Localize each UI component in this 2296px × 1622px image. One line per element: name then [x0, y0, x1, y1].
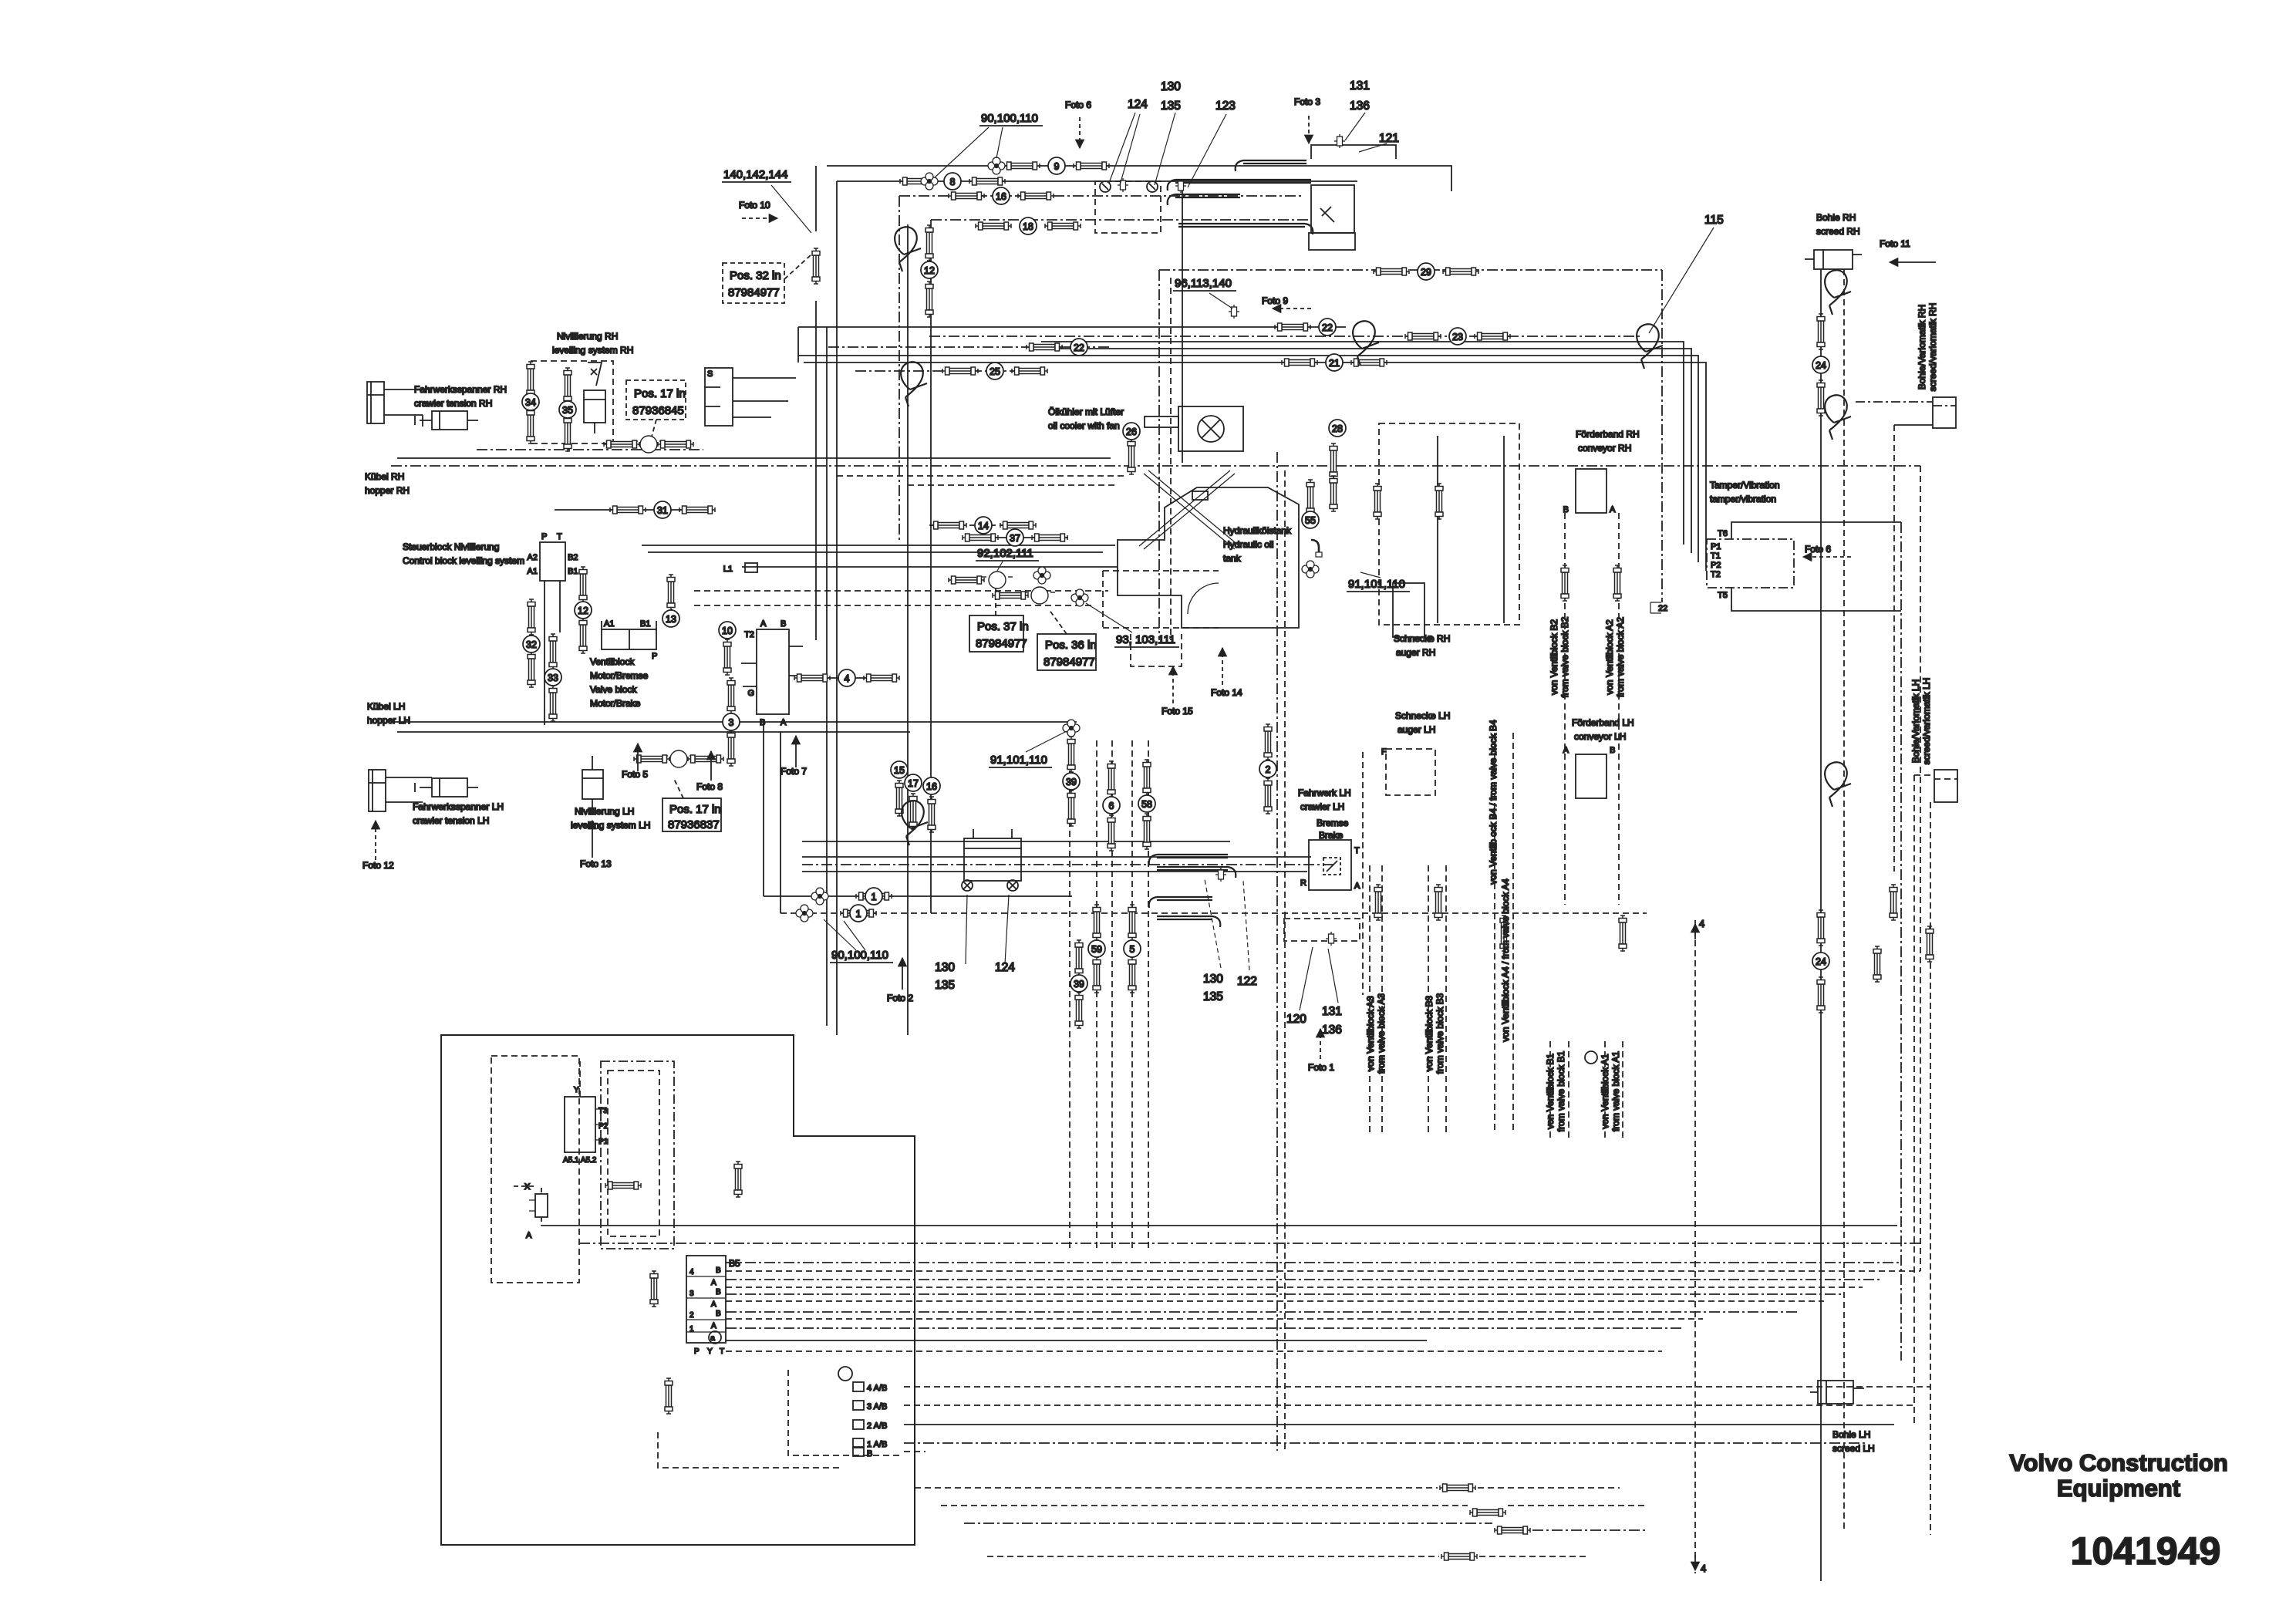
svg-text:Bremse: Bremse [1317, 818, 1349, 828]
svg-text:130: 130 [935, 961, 955, 974]
svg-text:hopper LH: hopper LH [367, 715, 410, 726]
svg-text:Pos. 37 in: Pos. 37 in [977, 620, 1029, 633]
svg-text:from valve block B3: from valve block B3 [1435, 993, 1445, 1074]
svg-text:87984977: 87984977 [1043, 656, 1095, 669]
svg-text:130: 130 [1161, 80, 1181, 93]
svg-text:12: 12 [578, 605, 588, 616]
svg-text:21: 21 [1329, 358, 1340, 369]
svg-text:Foto 13: Foto 13 [580, 858, 612, 869]
svg-text:Fahrwerk LH: Fahrwerk LH [1298, 787, 1351, 798]
svg-text:Foto 2: Foto 2 [887, 993, 913, 1003]
svg-text:P: P [694, 1347, 700, 1356]
svg-text:Volvo Construction: Volvo Construction [2009, 1449, 2228, 1476]
svg-text:3: 3 [689, 1290, 694, 1298]
svg-text:P: P [652, 652, 657, 661]
svg-text:Schnecke LH: Schnecke LH [1395, 710, 1450, 721]
svg-text:crawler LH: crawler LH [1300, 801, 1344, 812]
svg-text:Nivillierung LH: Nivillierung LH [575, 806, 634, 817]
svg-text:Bohle/Variomatik RH: Bohle/Variomatik RH [1917, 305, 1927, 389]
svg-text:A: A [781, 718, 787, 727]
svg-text:B2: B2 [568, 553, 578, 562]
svg-text:T: T [557, 532, 562, 541]
svg-text:17: 17 [908, 778, 919, 789]
svg-text:crawler tension RH: crawler tension RH [414, 398, 492, 409]
svg-text:von Ventilblock A3: von Ventilblock A3 [1365, 996, 1376, 1071]
svg-text:12: 12 [924, 265, 935, 276]
svg-text:24: 24 [1816, 360, 1826, 371]
svg-text:Pos. 32 in: Pos. 32 in [730, 269, 781, 282]
svg-text:B: B [716, 1266, 721, 1275]
svg-text:18: 18 [1023, 221, 1033, 232]
svg-text:Hydraulikölstank: Hydraulikölstank [1223, 525, 1292, 536]
svg-text:136: 136 [1350, 99, 1370, 113]
svg-text:A: A [1563, 746, 1569, 755]
svg-text:Foto 12: Foto 12 [362, 860, 394, 871]
svg-text:B: B [867, 1449, 872, 1458]
svg-text:crawler tension LH: crawler tension LH [413, 815, 489, 826]
svg-text:Kübel LH: Kübel LH [367, 701, 405, 712]
svg-text:Foto 8: Foto 8 [696, 781, 723, 792]
svg-text:von Ventilblock A2: von Ventilblock A2 [1604, 619, 1615, 695]
svg-text:P2: P2 [1711, 561, 1721, 570]
svg-text:von Ventilblock B1: von Ventilblock B1 [1545, 1054, 1556, 1129]
svg-text:Y: Y [707, 1347, 713, 1356]
svg-text:25: 25 [990, 366, 1000, 377]
svg-text:B1: B1 [640, 619, 650, 629]
svg-text:120: 120 [1286, 1013, 1306, 1026]
svg-text:T2: T2 [744, 630, 754, 639]
svg-text:S: S [707, 369, 713, 379]
svg-text:4: 4 [1699, 918, 1704, 929]
svg-text:T1: T1 [1711, 551, 1721, 561]
svg-text:131: 131 [1322, 1005, 1342, 1018]
svg-text:B5: B5 [729, 1258, 740, 1269]
svg-text:from valve block B1: from valve block B1 [1556, 1050, 1566, 1131]
svg-text:Pos. 36 in: Pos. 36 in [1045, 639, 1097, 652]
svg-text:96,113,140: 96,113,140 [1175, 277, 1232, 290]
svg-text:from valve block A3: from valve block A3 [1376, 993, 1387, 1074]
svg-text:93, 103,111: 93, 103,111 [1116, 633, 1175, 646]
svg-text:levelling system LH: levelling system LH [571, 820, 650, 831]
svg-text:124: 124 [1128, 98, 1148, 111]
svg-text:Foto 7: Foto 7 [781, 766, 807, 777]
svg-text:1: 1 [872, 892, 877, 902]
svg-text:from valve block A2: from valve block A2 [1615, 617, 1626, 697]
svg-text:55: 55 [1305, 515, 1316, 526]
svg-text:Hydraulic oil: Hydraulic oil [1223, 539, 1273, 550]
svg-text:von Ventilblock B3: von Ventilblock B3 [1424, 996, 1435, 1071]
svg-text:Fahrwerksspanner RH: Fahrwerksspanner RH [414, 384, 507, 395]
svg-text:22: 22 [1322, 322, 1333, 333]
svg-text:A: A [711, 1279, 716, 1287]
svg-text:levelling system RH: levelling system RH [552, 345, 633, 356]
svg-text:Foto 15: Foto 15 [1161, 706, 1193, 717]
svg-text:2: 2 [1266, 764, 1271, 775]
svg-text:screed/variomatik LH: screed/variomatik LH [1921, 678, 1932, 765]
svg-text:B: B [760, 718, 765, 727]
svg-text:13: 13 [666, 614, 676, 625]
svg-text:Foto 10: Foto 10 [739, 200, 770, 211]
svg-text:124: 124 [995, 961, 1015, 974]
svg-text:Foto 9: Foto 9 [1262, 295, 1288, 306]
svg-text:tank: tank [1223, 553, 1242, 564]
svg-text:B: B [781, 619, 786, 629]
svg-text:32: 32 [526, 639, 537, 650]
svg-text:9: 9 [1054, 161, 1060, 172]
svg-text:26: 26 [1126, 427, 1137, 437]
svg-text:hopper RH: hopper RH [365, 485, 410, 496]
svg-text:23: 23 [1452, 332, 1463, 342]
svg-text:Pos. 17 in: Pos. 17 in [634, 387, 686, 400]
svg-text:135: 135 [1203, 990, 1223, 1003]
svg-text:34: 34 [525, 397, 536, 408]
svg-text:G: G [747, 689, 754, 698]
svg-text:130: 130 [1203, 973, 1223, 986]
svg-text:122: 122 [1237, 975, 1257, 988]
svg-text:B: B [716, 1288, 721, 1297]
svg-text:von Ventilblock A4 / from valv: von Ventilblock A4 / from valve block A4 [1500, 878, 1511, 1042]
svg-text:auger RH: auger RH [1396, 647, 1435, 658]
svg-text:92,102,111: 92,102,111 [977, 547, 1033, 560]
svg-text:31: 31 [657, 505, 668, 516]
svg-text:Foto 3: Foto 3 [1294, 96, 1320, 107]
svg-text:29: 29 [1421, 267, 1431, 278]
svg-text:Pos. 17 in: Pos. 17 in [669, 803, 721, 816]
svg-text:T2: T2 [1711, 570, 1721, 579]
svg-text:Kübel RH: Kübel RH [365, 471, 404, 482]
svg-text:F: F [1381, 747, 1387, 757]
svg-text:Bohle RH: Bohle RH [1816, 212, 1856, 223]
svg-text:Foto 14: Foto 14 [1211, 687, 1242, 698]
svg-text:von Ventilb ock B4 / from valv: von Ventilb ock B4 / from valve block B4 [1488, 720, 1499, 885]
svg-text:screed LH: screed LH [1832, 1443, 1875, 1454]
svg-text:T5: T5 [1718, 591, 1728, 600]
svg-text:conveyor RH: conveyor RH [1578, 443, 1631, 454]
svg-text:B: B [1563, 505, 1569, 514]
svg-text:Foto 1: Foto 1 [1308, 1062, 1334, 1073]
svg-text:B: B [1610, 746, 1615, 755]
svg-text:37: 37 [1010, 533, 1020, 544]
svg-text:Bohle LH: Bohle LH [1832, 1429, 1870, 1440]
svg-text:33: 33 [548, 673, 558, 683]
svg-text:5: 5 [1130, 944, 1135, 955]
svg-text:A5.1 A5.2: A5.1 A5.2 [563, 1156, 597, 1165]
svg-text:B: B [716, 1310, 721, 1318]
svg-text:135: 135 [1161, 99, 1181, 113]
svg-text:1: 1 [856, 909, 861, 919]
svg-text:87984977: 87984977 [728, 286, 780, 299]
svg-text:Foto 11: Foto 11 [1880, 238, 1910, 249]
svg-text:4: 4 [1701, 1563, 1706, 1574]
svg-text:P2: P2 [598, 1122, 609, 1131]
svg-text:131: 131 [1350, 79, 1370, 93]
svg-text:Fahrwerksspanner LH: Fahrwerksspanner LH [413, 801, 504, 812]
svg-text:X: X [524, 1182, 531, 1192]
svg-text:8: 8 [950, 177, 956, 187]
svg-text:Valve block: Valve block [590, 684, 637, 695]
svg-text:Y: Y [574, 1086, 579, 1094]
svg-text:L1: L1 [723, 565, 733, 574]
svg-text:Foto 6: Foto 6 [1805, 544, 1831, 555]
svg-text:A: A [711, 1300, 716, 1309]
svg-text:16: 16 [926, 781, 937, 792]
svg-text:von Ventilblock B2: von Ventilblock B2 [1549, 619, 1559, 695]
svg-text:1041949: 1041949 [2071, 1529, 2221, 1573]
svg-text:22: 22 [1658, 604, 1667, 613]
svg-text:T: T [720, 1347, 724, 1356]
svg-text:Equipment: Equipment [2057, 1475, 2180, 1502]
svg-text:A1: A1 [528, 567, 538, 576]
svg-text:B1: B1 [568, 567, 578, 576]
svg-text:4: 4 [845, 673, 850, 684]
svg-text:A: A [1610, 505, 1616, 514]
svg-text:6: 6 [1109, 801, 1114, 811]
svg-text:from valve block B2: from valve block B2 [1559, 616, 1570, 697]
svg-text:screed RH: screed RH [1816, 226, 1860, 237]
svg-text:3: 3 [729, 717, 734, 728]
svg-text:P1: P1 [1711, 542, 1721, 551]
svg-text:90,100,110: 90,100,110 [981, 112, 1038, 125]
svg-text:Bohle/Variomatik LH: Bohle/Variomatik LH [1910, 679, 1921, 764]
svg-text:auger LH: auger LH [1397, 724, 1435, 735]
svg-text:Motor/Brake: Motor/Brake [590, 698, 641, 709]
svg-text:Förderband LH: Förderband LH [1572, 717, 1634, 728]
svg-text:16: 16 [996, 191, 1006, 202]
svg-text:10: 10 [722, 626, 733, 636]
svg-text:123: 123 [1215, 99, 1236, 113]
svg-text:28: 28 [1332, 423, 1343, 434]
svg-text:91,101,110: 91,101,110 [990, 754, 1047, 767]
svg-text:87984977: 87984977 [976, 637, 1027, 650]
svg-text:Control block levelling system: Control block levelling system [403, 555, 524, 566]
svg-text:T3: T3 [598, 1107, 608, 1115]
svg-text:87936845: 87936845 [632, 404, 684, 417]
svg-text:von Ventilblock A1: von Ventilblock A1 [1600, 1054, 1610, 1129]
svg-text:14: 14 [978, 521, 989, 531]
svg-text:59: 59 [1091, 944, 1102, 955]
svg-text:P1: P1 [598, 1138, 609, 1146]
svg-text:87936837: 87936837 [668, 818, 720, 831]
svg-text:Tamper/Vibration: Tamper/Vibration [1710, 480, 1780, 491]
svg-text:T6: T6 [1718, 529, 1728, 538]
svg-text:A: A [711, 1322, 716, 1330]
svg-text:91,101,110: 91,101,110 [1348, 578, 1405, 591]
svg-text:a: a [710, 1334, 715, 1343]
svg-text:15: 15 [894, 765, 905, 776]
svg-text:22: 22 [1074, 342, 1084, 353]
svg-text:4: 4 [689, 1268, 694, 1276]
svg-text:Steuerblock Nivillierung: Steuerblock Nivillierung [403, 541, 499, 552]
svg-text:2: 2 [689, 1311, 694, 1320]
svg-text:A2: A2 [528, 553, 538, 562]
svg-text:Brake: Brake [1319, 830, 1344, 841]
svg-text:90,100,110: 90,100,110 [831, 949, 888, 962]
svg-text:Ventilblock: Ventilblock [590, 656, 635, 667]
svg-text:Ölkühler mit Lüfter: Ölkühler mit Lüfter [1048, 406, 1124, 417]
svg-text:135: 135 [935, 979, 955, 992]
svg-text:2 A/B: 2 A/B [867, 1421, 887, 1431]
svg-text:Motor/Bremse: Motor/Bremse [590, 670, 649, 681]
svg-text:A: A [1354, 882, 1360, 891]
svg-text:121: 121 [1379, 132, 1399, 145]
svg-text:conveyor LH: conveyor LH [1574, 731, 1626, 742]
svg-text:35: 35 [562, 405, 573, 416]
svg-text:Schnecke RH: Schnecke RH [1394, 633, 1450, 644]
svg-text:T: T [1354, 846, 1360, 855]
svg-text:Förderband RH: Förderband RH [1576, 429, 1640, 440]
svg-text:1: 1 [689, 1325, 694, 1334]
svg-text:58: 58 [1141, 799, 1152, 810]
svg-text:A: A [526, 1231, 532, 1240]
svg-text:24: 24 [1816, 956, 1826, 967]
svg-text:39: 39 [1074, 979, 1084, 990]
svg-text:A: A [760, 619, 767, 629]
svg-text:Foto 6: Foto 6 [1065, 99, 1091, 110]
svg-text:P: P [1428, 635, 1433, 644]
svg-text:Nivillierung RH: Nivillierung RH [557, 331, 618, 342]
svg-text:oil cooler with fan: oil cooler with fan [1048, 420, 1120, 431]
svg-text:tamper/vibration: tamper/vibration [1710, 494, 1776, 504]
svg-text:136: 136 [1322, 1023, 1342, 1037]
svg-text:4 A/B: 4 A/B [867, 1384, 887, 1393]
svg-text:39: 39 [1066, 777, 1077, 787]
svg-text:R: R [1300, 878, 1306, 888]
svg-text:3 A/B: 3 A/B [867, 1402, 887, 1411]
svg-text:screed/variomatik RH: screed/variomatik RH [1927, 303, 1938, 392]
svg-text:140,142,144: 140,142,144 [723, 168, 787, 181]
svg-text:115: 115 [1704, 214, 1724, 227]
svg-text:1 A/B: 1 A/B [867, 1440, 887, 1449]
svg-text:Foto 5: Foto 5 [622, 769, 648, 780]
svg-text:from valve block A1: from valve block A1 [1610, 1051, 1621, 1131]
svg-text:A1: A1 [604, 619, 614, 629]
svg-text:P: P [541, 532, 547, 541]
